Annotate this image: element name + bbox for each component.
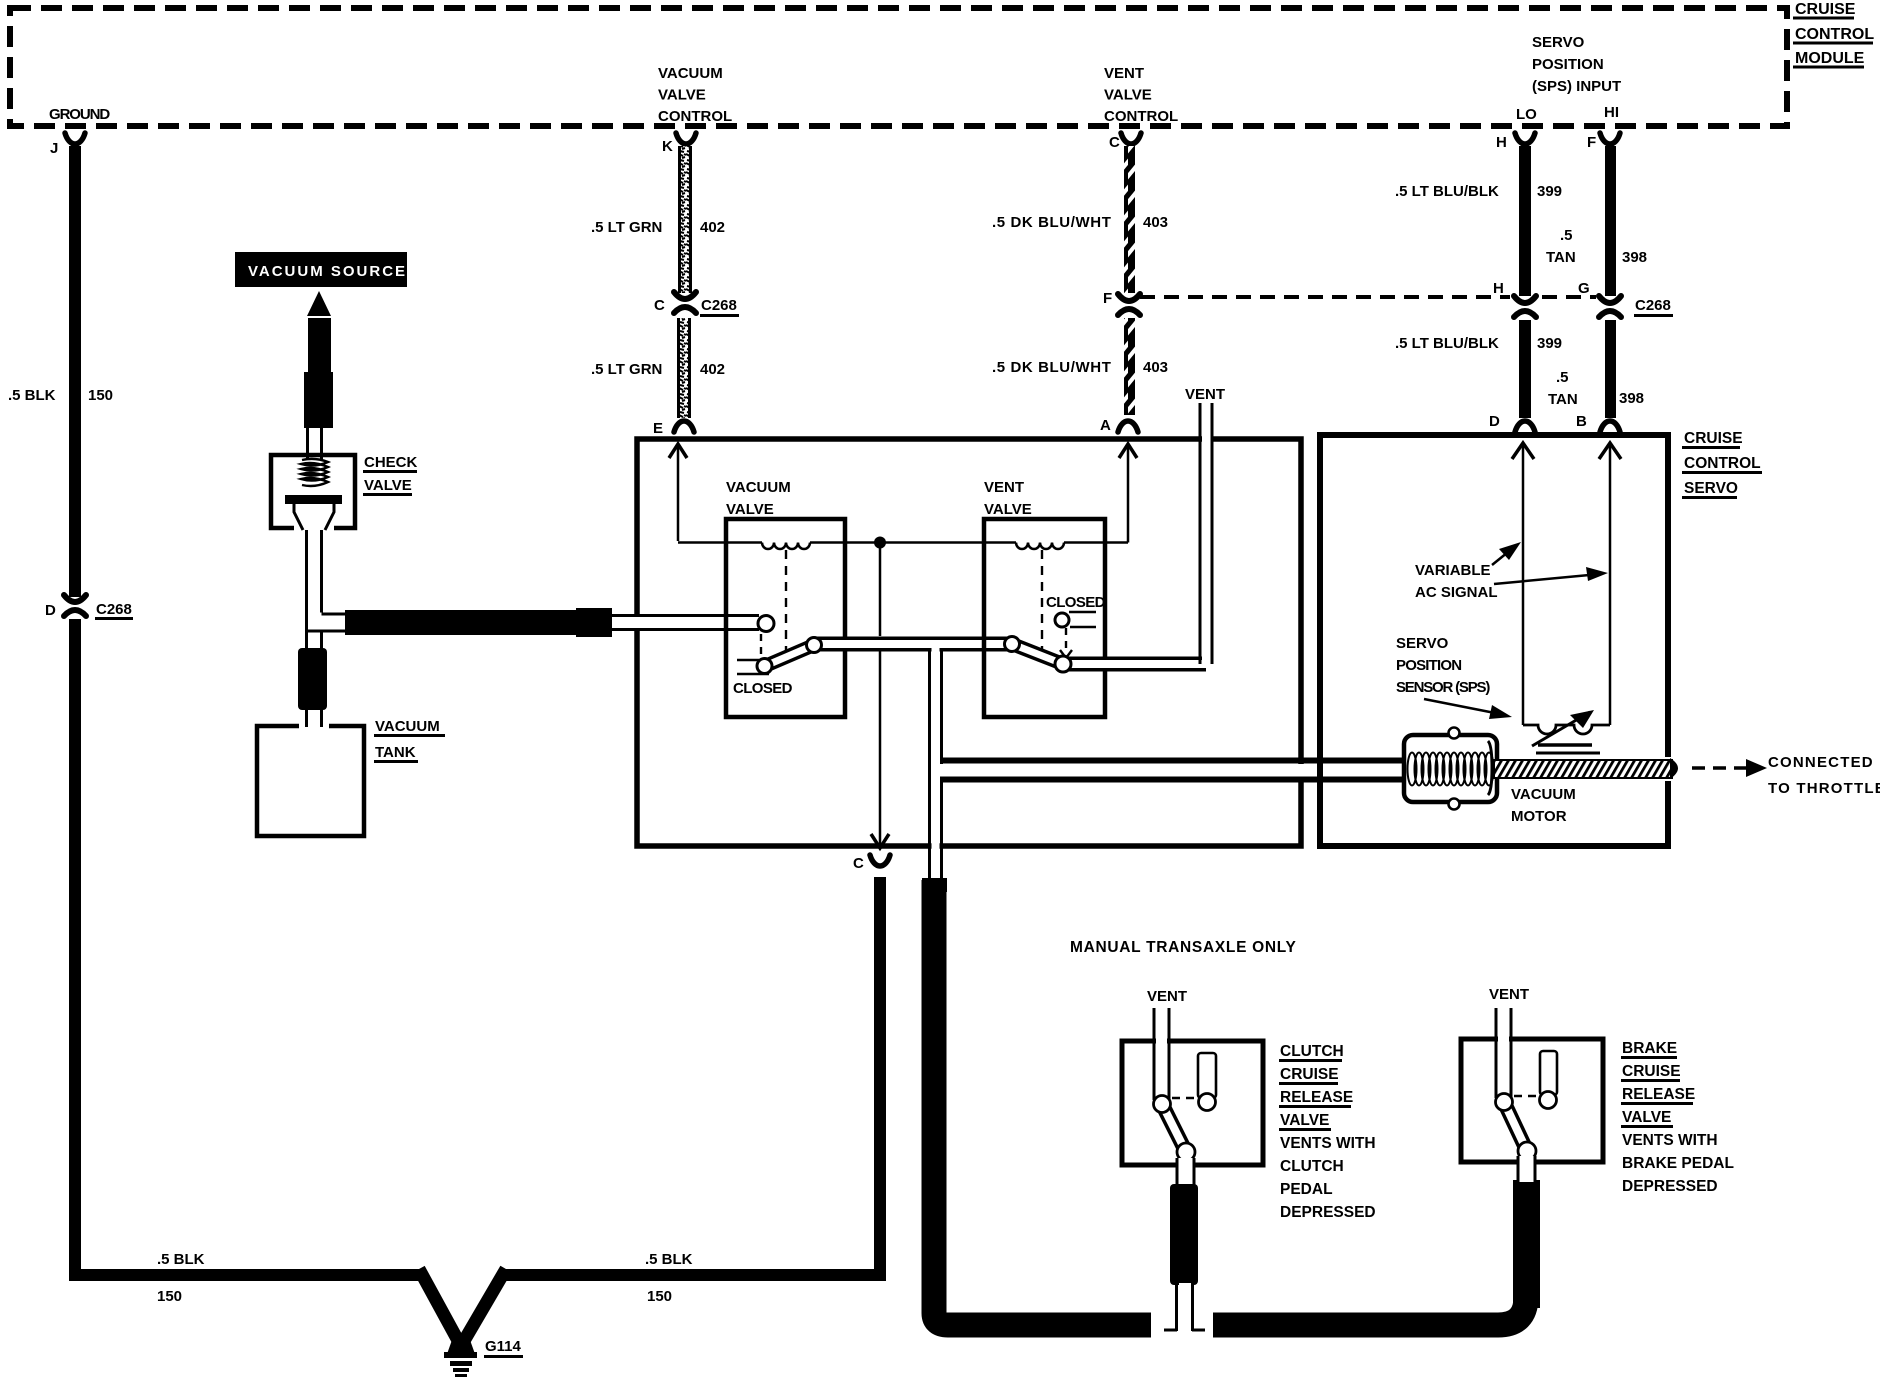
svg-text:399: 399 [1537,183,1562,200]
white gap where hose tube crosses outer box left edge [630,617,642,628]
svg-text:VENT: VENT [1147,988,1187,1005]
brake valve dashed link [1514,1095,1540,1097]
brake valve box [1461,1039,1603,1162]
svg-text:CONTROL: CONTROL [1684,455,1761,472]
clutch valve box [1122,1041,1263,1165]
svg-text:BRAKE: BRAKE [1622,1040,1677,1057]
check valve spring [301,459,328,486]
arrow up to E inside box [669,444,687,541]
clutch valve dashed link [1172,1097,1198,1099]
svg-text:G114: G114 [485,1338,522,1355]
svg-text:.5 DK BLU/WHT: .5 DK BLU/WHT [992,359,1111,376]
cruise control module dashed box [10,8,1787,126]
coil wire E-arrow to vacuum valve solenoid [678,541,762,544]
label CONNECTED TO THROTTLE [1768,754,1880,797]
vacuum valve rocker arms and pivots [757,616,1012,674]
svg-text:POSITION: POSITION [1532,56,1604,73]
clutch valve vent tube [1154,1008,1169,1100]
dashed arrow to CONNECTED TO THROTTLE [1692,759,1767,777]
svg-text:CONTROL: CONTROL [1104,108,1178,125]
vertical tube from vent-valve outlet down to lower hose [930,648,942,880]
svg-text:TAN: TAN [1546,249,1576,266]
tube from check valve down to tee [307,530,348,633]
svg-text:LO: LO [1516,106,1537,123]
label VACUUM VALVE [726,479,791,518]
svg-text:CLUTCH: CLUTCH [1280,1043,1344,1060]
vent valve inner box [984,519,1105,717]
wire .5 DK BLU/WHT 403 (C to F to A) white-slashed [1124,146,1135,415]
vacuum motor spring [1408,753,1494,786]
svg-text:VENT: VENT [1489,986,1529,1003]
svg-text:CRUISE: CRUISE [1795,1,1856,18]
svg-text:.5 BLK: .5 BLK [157,1251,205,1268]
arrow VARIABLE to D line [1492,542,1521,565]
svg-text:VALVE: VALVE [658,87,706,104]
tube below tee to vacuum tank [298,632,327,727]
svg-text:PEDAL: PEDAL [1280,1181,1333,1198]
svg-text:F: F [1587,134,1596,151]
svg-text:CHECK: CHECK [364,454,418,471]
dashed connector line F-H-G C268 [1140,295,1596,299]
clutch valve tube to tee [1151,1283,1213,1340]
vacuum tank box [257,726,364,836]
svg-text:CRUISE: CRUISE [1622,1063,1681,1080]
svg-text:VENTS WITH: VENTS WITH [1622,1132,1718,1149]
svg-text:C: C [853,855,864,872]
brake valve outlet tube through box bottom [1517,1156,1536,1184]
svg-text:K: K [662,138,673,155]
vent valve closed seat ball and marks [1055,612,1096,627]
arrow AC SIGNAL to B line [1494,567,1608,584]
svg-text:H: H [1493,280,1504,297]
VACUUM SOURCE label box [235,252,407,287]
svg-text:C268: C268 [1635,297,1671,314]
dashed armature line in vacuum valve [761,550,786,656]
svg-text:BRAKE PEDAL: BRAKE PEDAL [1622,1155,1734,1172]
svg-text:SERVO: SERVO [1396,635,1449,652]
label VACUUM TANK [374,718,445,763]
svg-text:TAN: TAN [1548,391,1578,408]
label VACUUM MOTOR [1511,786,1576,825]
cruise control servo box [1320,435,1668,846]
label CHECK VALVE [363,454,418,496]
svg-text:VACUUM: VACUUM [726,479,791,496]
svg-text:.5 BLK: .5 BLK [8,387,56,404]
connector F on DK BLU/WHT wire [1118,294,1140,315]
label VENT VALVE [984,479,1032,518]
wire junction down to C arrow and connector [871,548,889,848]
svg-text:150: 150 [157,1288,182,1305]
svg-text:.5 LT GRN: .5 LT GRN [591,219,662,236]
svg-text:VENTS WITH: VENTS WITH [1280,1135,1376,1152]
svg-text:POSITION: POSITION [1396,657,1461,674]
label CRUISE CONTROL MODULE [1793,1,1874,69]
svg-text:C268: C268 [701,297,737,314]
svg-text:C: C [654,297,665,314]
label BRAKE CRUISE RELEASE VALVE VENTS WITH BRAKE PEDAL DEPRESSED [1621,1040,1734,1195]
svg-text:HI: HI [1604,104,1619,121]
svg-text:VACUUM: VACUUM [658,65,723,82]
svg-text:150: 150 [88,387,113,404]
svg-text:CLUTCH: CLUTCH [1280,1158,1344,1175]
connector G C268 on TAN wire [1599,296,1621,317]
svg-text:.5 LT GRN: .5 LT GRN [591,361,662,378]
ground G114 symbol [444,1340,477,1377]
vacuum valve solenoid coil [762,543,810,550]
svg-text:VARIABLE: VARIABLE [1415,562,1491,579]
vacuum valve inner box [726,519,845,717]
black vacuum hose horizontal [345,608,612,637]
clutch valve outlet tube through box bottom [1176,1158,1195,1186]
vacuum/vent valves outer box [637,439,1301,846]
brake valve seat cylinder [1540,1051,1558,1109]
svg-text:403: 403 [1143,359,1168,376]
svg-text:C: C [1109,134,1120,151]
SPS signal line B (arrow up) [1599,443,1621,725]
svg-text:TANK: TANK [375,744,416,761]
svg-text:VALVE: VALVE [984,501,1032,518]
SPS base lines [1536,745,1600,753]
svg-text:SERVO: SERVO [1684,480,1738,497]
throttle rod (hatched) [1494,757,1678,781]
check valve plunger cup [294,504,334,534]
svg-text:VALVE: VALVE [726,501,774,518]
svg-text:VENT: VENT [1185,386,1225,403]
SPS signal line D (arrow up) [1512,443,1534,725]
tube from nozzle to check valve [308,428,322,461]
svg-text:398: 398 [1619,390,1644,407]
svg-text:CLOSED: CLOSED [1046,594,1106,611]
svg-text:D: D [45,602,56,619]
junction node dot [874,537,886,549]
label VENT VALVE CONTROL [1104,65,1178,125]
svg-text:G: G [1578,280,1590,297]
wire coil to junction and on to vent valve coil [810,541,1016,544]
check valve box [271,455,355,528]
svg-text:VALVE: VALVE [1622,1109,1671,1126]
svg-text:MOTOR: MOTOR [1511,808,1567,825]
SPS element (pot track with bumps) [1523,725,1610,734]
svg-text:MANUAL TRANSAXLE ONLY: MANUAL TRANSAXLE ONLY [1070,939,1297,956]
vent valve rocker arms and pivots [1005,637,1207,673]
brake valve rocker arm and pivots [1496,1094,1537,1161]
svg-text:CLOSED: CLOSED [733,680,793,697]
svg-text:VALVE: VALVE [364,477,412,494]
svg-text:TO THROTTLE: TO THROTTLE [1768,780,1880,797]
clutch valve rocker arm and pivots [1154,1096,1196,1162]
svg-text:F: F [1103,290,1112,307]
black hose from tee to brake valve [1213,1180,1540,1325]
label VACUUM VALVE CONTROL [658,65,732,125]
svg-text:MODULE: MODULE [1795,50,1865,67]
label SERVO POSITION (SPS) INPUT [1532,34,1621,95]
wire .5 BLK 150 ground wire J: left vertical + bottom run to G114 V and to C wire [75,146,880,1346]
svg-text:SENSOR (SPS): SENSOR (SPS) [1396,679,1490,696]
label CLUTCH CRUISE RELEASE VALVE VENTS WITH CLUTCH PEDAL DEPRESSED [1279,1043,1376,1221]
wire vent coil to A arrow [1064,541,1128,544]
svg-text:403: 403 [1143,214,1168,231]
svg-text:.5 BLK: .5 BLK [645,1251,693,1268]
wire .5 LT BLU/BLK 399 (H to D) [1519,146,1531,418]
svg-text:A: A [1100,417,1111,434]
svg-text:398: 398 [1622,249,1647,266]
wire .5 TAN 398 (F to B) [1605,146,1616,418]
black hose from valve box down to bottom tee [922,878,1151,1325]
dashed armature line in vent valve [1042,550,1072,658]
svg-text:.5: .5 [1560,227,1573,244]
svg-text:H: H [1496,134,1507,151]
svg-text:SERVO: SERVO [1532,34,1585,51]
svg-text:AC SIGNAL: AC SIGNAL [1415,584,1498,601]
label SERVO POSITION SENSOR (SPS) [1396,635,1490,696]
svg-text:VALVE: VALVE [1104,87,1152,104]
tube from hose into valve box (crosses box edge) [612,616,759,630]
svg-text:.5 LT BLU/BLK: .5 LT BLU/BLK [1395,183,1499,200]
connector H on LT BLU/BLK wire [1514,296,1536,317]
clutch valve hose sleeve [1170,1184,1198,1285]
svg-text:VACUUM SOURCE: VACUUM SOURCE [248,263,407,280]
svg-text:CONNECTED: CONNECTED [1768,754,1874,771]
vacuum motor body [1404,728,1497,810]
svg-text:VENT: VENT [1104,65,1144,82]
vent valve solenoid coil [1016,543,1064,550]
svg-text:J: J [50,140,58,157]
svg-text:VALVE: VALVE [1280,1112,1329,1129]
svg-text:402: 402 [700,361,725,378]
tube from vertical tube to vacuum motor [939,761,1406,780]
vacuum source nozzle arrow [304,291,333,428]
svg-text:D: D [1489,413,1500,430]
svg-text:150: 150 [647,1288,672,1305]
arrow SPS label to element [1424,699,1512,719]
label CRUISE CONTROL SERVO [1682,430,1762,499]
arrow up to A inside box [1119,444,1137,543]
vacuum valve closed seat marks [737,660,769,674]
connector C C268 on LT GRN wire [674,292,696,313]
svg-text:GROUND: GROUND [49,106,110,123]
svg-text:.5 DK BLU/WHT: .5 DK BLU/WHT [992,214,1111,231]
svg-text:399: 399 [1537,335,1562,352]
svg-text:C268: C268 [96,601,132,618]
label VARIABLE AC SIGNAL [1415,562,1498,601]
svg-text:DEPRESSED: DEPRESSED [1280,1204,1376,1221]
brake valve vent tube [1496,1008,1511,1098]
SPS wiper arrow (diagonal) [1532,710,1594,746]
svg-text:B: B [1576,413,1587,430]
svg-text:.5: .5 [1556,369,1569,386]
svg-text:RELEASE: RELEASE [1280,1089,1353,1106]
check valve plunger plate [285,495,342,504]
svg-text:CONTROL: CONTROL [1795,26,1874,43]
wire .5 LT GRN 402 (K to C268 to E) stippled [677,146,692,418]
svg-text:VACUUM: VACUUM [1511,786,1576,803]
svg-text:CRUISE: CRUISE [1684,430,1743,447]
connector D C268 on ground wire [63,595,87,619]
svg-text:CRUISE: CRUISE [1280,1066,1339,1083]
vent tube down from VENT through box top [1200,403,1212,664]
svg-text:.5 LT BLU/BLK: .5 LT BLU/BLK [1395,335,1499,352]
svg-text:DEPRESSED: DEPRESSED [1622,1178,1718,1195]
svg-text:VACUUM: VACUUM [375,718,440,735]
svg-text:E: E [653,420,663,437]
svg-text:RELEASE: RELEASE [1622,1086,1695,1103]
svg-text:CONTROL: CONTROL [658,108,732,125]
clutch valve seat cylinder [1198,1053,1216,1111]
svg-text:VENT: VENT [984,479,1024,496]
svg-text:(SPS) INPUT: (SPS) INPUT [1532,78,1621,95]
svg-text:402: 402 [700,219,725,236]
